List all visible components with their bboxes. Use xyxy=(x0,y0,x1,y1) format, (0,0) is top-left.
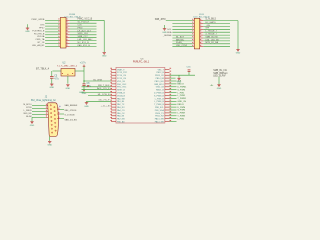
svg-text:PA13_SW: PA13_SW xyxy=(155,118,164,121)
svg-text:4.7u: 4.7u xyxy=(54,78,59,80)
svg-text:PC14_OS: PC14_OS xyxy=(117,75,127,77)
IC U3 left pin 4 xyxy=(111,77,116,79)
wire U3 left pin 7 xyxy=(82,86,112,88)
svg-text:GND: GND xyxy=(102,56,107,58)
regulator U2 pin marks xyxy=(62,72,63,75)
svg-text:D_PWM_B: D_PWM_B xyxy=(154,93,165,95)
connector J103 pin 9 (left) xyxy=(193,31,195,33)
svg-text:PMIC_VCC_B: PMIC_VCC_B xyxy=(78,18,93,20)
wire J103 right row 10 xyxy=(203,46,230,48)
IC U3 left pin 17 xyxy=(111,115,116,117)
svg-text:GND: GND xyxy=(84,106,89,108)
wire J101 pin2 to GND rail xyxy=(70,19,105,21)
wire down from U2 output xyxy=(83,71,85,81)
regulator U2 body xyxy=(61,69,75,77)
IC U3 left pin 16 xyxy=(111,112,116,114)
wire J103 left row 5 xyxy=(172,31,192,33)
svg-text:LML_C1N2: LML_C1N2 xyxy=(176,45,188,47)
connector J101 pin 8 (right) xyxy=(66,28,70,30)
connector J101 pin 10 (right) xyxy=(66,31,70,33)
wire J2 left row 4 xyxy=(32,113,46,115)
svg-text:M_BC10: M_BC10 xyxy=(23,104,32,106)
svg-text:BL_W1B: BL_W1B xyxy=(93,80,102,82)
connector J101 pin 12 (right) xyxy=(66,34,70,36)
svg-text:GND: GND xyxy=(79,92,84,94)
svg-text:VBAT_9: VBAT_9 xyxy=(117,68,125,71)
wire U3 left pin 10 xyxy=(88,95,111,97)
svg-text:PAD_BY1_B: PAD_BY1_B xyxy=(78,44,91,47)
svg-text:L_PW1_B: L_PW1_B xyxy=(155,98,165,100)
wire J2 left row 2 xyxy=(32,107,46,109)
svg-text:L_PWM: L_PWM xyxy=(177,95,185,97)
IC U3 right pin 34 xyxy=(165,109,170,111)
wire U3 right pin 22 rail xyxy=(170,74,196,76)
svg-text:CLK: CLK xyxy=(78,25,83,27)
wire label block to ground xyxy=(218,77,220,85)
svg-text:PA0_WK: PA0_WK xyxy=(117,97,126,100)
svg-text:PH1_OSC: PH1_OSC xyxy=(117,87,127,89)
svg-text:L_TB1LE_#: L_TB1LE_# xyxy=(205,31,217,33)
IC U3 left pin 15 xyxy=(111,109,116,111)
wire U3 right pin 30 xyxy=(170,97,177,99)
capacitor C5 xyxy=(50,77,54,79)
svg-text:ML_1CW_B: ML_1CW_B xyxy=(98,94,110,96)
IC U3 left pin 8 xyxy=(111,89,116,91)
IC U3 right pin 30 xyxy=(165,97,170,99)
wire J103 right row 3 xyxy=(203,25,230,27)
IC U3 right pin 31 xyxy=(165,100,170,102)
wire U3 right pin 28 xyxy=(170,92,177,94)
svg-text:WR_T_BLK: WR_T_BLK xyxy=(98,85,110,87)
svg-text:GND: GND xyxy=(47,144,52,146)
svg-text:BT1B: BT1B xyxy=(26,107,32,109)
connector J101 pin 17 (left) xyxy=(59,43,60,45)
svg-text:PB8_SCL: PB8_SCL xyxy=(155,107,165,109)
connector J101 pin 20 (right) xyxy=(66,45,70,47)
svg-text:PURLFC_-08_1: PURLFC_-08_1 xyxy=(133,62,150,64)
connector J103 pin 2 (right) xyxy=(200,20,204,22)
wire J101 right row 3 xyxy=(70,25,97,27)
wire U3 right pin 29 xyxy=(170,95,177,97)
connector J103 pin 17 (left) xyxy=(193,43,195,45)
wire U3 left pin 9 xyxy=(82,92,112,94)
svg-text:LML_LB1_W#: LML_LB1_W# xyxy=(205,39,220,41)
svg-text:GND_1B: GND_1B xyxy=(156,87,165,89)
wire U3 right pin 36 xyxy=(170,115,177,117)
svg-text:BT_1S: BT_1S xyxy=(38,42,45,44)
svg-text:T_PWM: T_PWM xyxy=(177,116,185,118)
svg-text:PA6_MI: PA6_MI xyxy=(117,115,124,118)
wire J101 left row 5 xyxy=(45,31,59,33)
svg-text:VDDA_B: VDDA_B xyxy=(117,94,126,97)
svg-text:PB9_SDA: PB9_SDA xyxy=(155,109,165,112)
ground symbol below J103 right rail xyxy=(236,49,241,54)
wire U3 right pin 37 xyxy=(170,118,177,120)
svg-text:PC13_RTC: PC13_RTC xyxy=(117,72,128,74)
svg-text:BRCWC: BRCWC xyxy=(176,39,185,41)
connector J103 pin 5 (left) xyxy=(193,25,195,27)
wire J2 left row 1 xyxy=(32,105,46,107)
wire J103 right row 2 xyxy=(203,23,230,25)
connector J101 pin 18 (right) xyxy=(66,43,70,45)
svg-text:+3.7v: +3.7v xyxy=(80,61,87,64)
wire J103 right row 4 xyxy=(203,28,230,30)
svg-text:RBD1_B: RBD1_B xyxy=(156,90,164,92)
wire J101 left row 4 xyxy=(45,28,59,30)
connector J101 pin 5 (left) xyxy=(59,25,60,27)
IC U3 left pin 10 xyxy=(111,95,116,97)
svg-text:NC_BY1_B: NC_BY1_B xyxy=(78,42,90,44)
ground symbol right of U3 xyxy=(177,78,182,83)
connector J103 pin 18 (right) xyxy=(200,43,204,45)
wire J103 left row 7 xyxy=(172,37,192,39)
wire U3 right pin 32 xyxy=(170,103,177,105)
svg-text:VB1_T: VB1_T xyxy=(158,69,165,71)
ground symbol below U2 xyxy=(66,85,71,90)
svg-text:VSSA_B: VSSA_B xyxy=(117,92,125,95)
ground symbol below J2 xyxy=(47,141,52,146)
svg-text:FLAN_: FLAN_ xyxy=(176,41,184,44)
svg-text:VDD1A: VDD1A xyxy=(37,35,45,38)
svg-text:9AB_BBNHK: 9AB_BBNHK xyxy=(65,104,78,107)
svg-text:L_PW2: L_PW2 xyxy=(177,118,185,120)
wire stub GND at J103 left xyxy=(164,25,166,28)
IC U3 left pin 9 xyxy=(111,92,116,94)
svg-text:LP_4CY_CLT: LP_4CY_CLT xyxy=(78,30,92,32)
svg-text:L_9BDN: L_9BDN xyxy=(24,110,32,112)
svg-text:PC15_OS: PC15_OS xyxy=(117,78,127,80)
IC U3 right pin 24 xyxy=(165,80,170,82)
wire +3.7V rail into U3 pin xyxy=(84,80,111,82)
svg-text:GND: GND xyxy=(217,88,222,90)
wire J103 right row 6 xyxy=(203,34,230,36)
svg-text:9AB_4CLBS: 9AB_4CLBS xyxy=(65,118,78,121)
svg-text:BU_Vrau_lightning_bc: BU_Vrau_lightning_bc xyxy=(31,99,57,102)
svg-text:9BD_M9: 9BD_M9 xyxy=(23,113,32,115)
svg-text:S_PWM_B: S_PWM_B xyxy=(154,95,164,97)
svg-text:+_1L+_B: +_1L+_B xyxy=(101,106,110,108)
wire J101 left row 8 xyxy=(45,40,59,42)
wire J101 left row 10 xyxy=(45,45,59,47)
svg-text:PA5_CK: PA5_CK xyxy=(117,112,125,115)
wire C5 to ground xyxy=(51,79,53,84)
connector J103 pin 15 (left) xyxy=(193,40,195,42)
IC U3 left pin 1 xyxy=(111,68,116,70)
svg-text:L_PW1: L_PW1 xyxy=(177,92,185,94)
wire U3 left pin 8 xyxy=(82,89,112,91)
wire J103 pin1 long xyxy=(166,20,193,22)
connector J103 pin 1 (left) xyxy=(193,20,195,22)
wire J101 left row 1 xyxy=(45,19,59,21)
wire U3 right pin 24 xyxy=(170,80,177,82)
connector J2 left pin 1 xyxy=(46,105,48,107)
IC U3 right pin 29 xyxy=(165,95,170,97)
connector J103 pin 7 (left) xyxy=(193,28,195,30)
svg-text:#dL_#TL_F: #dL_#TL_F xyxy=(98,100,110,102)
wire U3 left pin 12 xyxy=(87,100,112,102)
IC U3 right pin 35 xyxy=(165,112,170,114)
svg-text:PA7_MO: PA7_MO xyxy=(117,118,125,121)
connector J2 left pin 2 xyxy=(46,107,48,109)
wire into regulator U2 input xyxy=(53,70,62,72)
connector J101 pin 9 (left) xyxy=(59,31,60,33)
svg-text:SMB_C1Y: SMB_C1Y xyxy=(78,36,89,38)
svg-text:MTB_B1_BA: MTB_B1_BA xyxy=(205,41,218,44)
svg-text:SDA: SDA xyxy=(167,31,172,34)
wire J103 right row 8 xyxy=(203,40,230,42)
connector J2 left pin 3 xyxy=(46,111,48,113)
wire U3 right pin 35 xyxy=(170,112,177,114)
wire down from U3 pin 12 to ground xyxy=(86,101,88,102)
ground symbol below label block xyxy=(217,85,222,90)
connector J103 pin 13 (left) xyxy=(193,37,195,39)
svg-text:SMB_BRPapt: SMB_BRPapt xyxy=(213,72,228,75)
ground symbol below U3 pin 12 wire xyxy=(84,103,89,108)
wire U3 right pin 23 short xyxy=(170,77,176,79)
wire U3 right pin 27 xyxy=(170,89,177,91)
wire J101 left row 3 xyxy=(45,25,59,27)
svg-text:D_PWM1: D_PWM1 xyxy=(177,87,187,89)
wire J103 left row 6 xyxy=(172,34,192,36)
svg-text:BL_B1Y: BL_B1Y xyxy=(176,36,185,38)
IC U3 right pin 26 xyxy=(165,86,170,88)
IC U3 right pin 28 xyxy=(165,92,170,94)
svg-text:GPI: GPI xyxy=(205,28,209,30)
svg-text:GND: GND xyxy=(30,125,35,127)
wire J103 right row 5 xyxy=(203,31,230,33)
IC U3 right pin 23 xyxy=(165,77,170,79)
connector J103 pin 20 (right) xyxy=(200,46,204,48)
svg-text:PB12_B: PB12_B xyxy=(156,72,164,74)
wire J2 pin5 to ground xyxy=(31,117,33,121)
wire U3 right pin 33 xyxy=(170,106,177,108)
IC U3 right pin 22 xyxy=(165,74,170,76)
wire J101 left row 7 xyxy=(45,37,59,39)
svg-text:PA2_TX: PA2_TX xyxy=(117,103,125,106)
svg-text:BC_MATIL: BC_MATIL xyxy=(205,21,216,24)
wire J2 right row 3 xyxy=(60,118,64,120)
wire J2 right row 2 xyxy=(60,113,64,115)
wire J101 right row 7 xyxy=(70,37,97,39)
capacitor C8 xyxy=(82,84,85,86)
svg-text:S_PWM: S_PWM xyxy=(177,110,185,112)
svg-text:GND: GND xyxy=(177,81,182,83)
svg-text:4_TB1LE_#: 4_TB1LE_# xyxy=(205,34,217,36)
junction dot blue xyxy=(59,106,60,107)
svg-text:9d#L_#CL_F: 9d#L_#CL_F xyxy=(97,88,110,90)
IC U3 right pin 25 xyxy=(165,83,170,85)
connector J101 pin 11 (left) xyxy=(59,34,60,36)
wire J101 right row 10 xyxy=(70,45,97,47)
capacitor C9 marks on U3 left wire xyxy=(87,85,89,87)
svg-text:PB11_RX: PB11_RX xyxy=(155,116,164,118)
connector J103 pin 10 (right) xyxy=(200,31,204,33)
wire J101 right row 2 xyxy=(70,22,97,24)
wire J101 right row 6 xyxy=(70,34,97,36)
svg-text:LML_LB1_AN#: LML_LB1_AN# xyxy=(78,38,94,41)
svg-text:LBD_SLPW: LBD_SLPW xyxy=(213,75,226,77)
IC U3 right pin 27 xyxy=(165,89,170,91)
svg-text:PF0#: PF0# xyxy=(39,28,45,30)
svg-text:T_PWM1: T_PWM1 xyxy=(177,98,187,100)
junction xyxy=(83,80,84,81)
IC U3 left pin 12 xyxy=(111,100,116,102)
svg-text:GND: GND xyxy=(25,31,30,33)
wire U3 right pin 25 xyxy=(170,83,177,85)
svg-text:GND_CH: GND_CH xyxy=(177,101,186,103)
IC U3 left pin 14 xyxy=(111,106,116,108)
svg-text:SMB_BC1W: SMB_BC1W xyxy=(205,36,218,38)
wire J101 right row 8 xyxy=(70,40,97,42)
connector J2 D-sub body xyxy=(48,103,59,137)
wire J103 left row 9 xyxy=(172,43,192,45)
connector J2 right pin 8 xyxy=(57,118,60,120)
IC U3 left pin 5 xyxy=(111,80,116,82)
connector J101 pin 19 (left) xyxy=(59,45,60,47)
wire J2 right row 1 xyxy=(60,109,64,111)
svg-text:PH0_OSC: PH0_OSC xyxy=(117,84,127,86)
ground symbol below C5 xyxy=(50,84,55,89)
connector J103 body xyxy=(194,18,199,49)
IC U3 right pin 32 xyxy=(165,103,170,105)
wire vertical J101 pin2 net down to ground xyxy=(103,20,105,52)
power flag +3.7V xyxy=(83,65,86,67)
wire J103 right row 9 xyxy=(203,43,230,45)
connector J2 pin circles xyxy=(50,105,56,133)
svg-text:GND: GND xyxy=(66,88,71,90)
svg-text:PF0#: PF0# xyxy=(78,27,84,29)
svg-text:T_L7+-08hr_-18hr_1: T_L7+-08hr_-18hr_1 xyxy=(57,64,78,67)
wire J2 left row 5 xyxy=(32,116,46,118)
connector J101 pin 4 (right) xyxy=(66,22,70,24)
wire J103 left row 2 xyxy=(172,23,192,25)
connector J101 pin 3 (left) xyxy=(59,22,60,24)
svg-text:SL_F12CLT: SL_F12CLT xyxy=(78,22,90,24)
wire down to ground at right of U3 xyxy=(178,75,180,78)
svg-text:D_PWM: D_PWM xyxy=(177,107,185,109)
IC U3 left pin 19 xyxy=(111,121,116,123)
svg-text:S_PWM: S_PWM xyxy=(177,89,185,91)
svg-text:NRST_B: NRST_B xyxy=(117,90,126,92)
wire stub GND at J101 left xyxy=(27,24,29,28)
svg-text:PB13_CK: PB13_CK xyxy=(155,75,164,77)
connector J103 pin 19 (left) xyxy=(193,46,195,48)
svg-text:9B4_4TB1S: 9B4_4TB1S xyxy=(65,110,77,112)
connector J2 right pin 6 xyxy=(57,109,60,111)
svg-text:PA1_B4: PA1_B4 xyxy=(117,100,125,103)
ground symbol below J2 left xyxy=(30,122,35,127)
svg-text:CMD_7A: CMD_7A xyxy=(35,38,44,41)
connector J101 pin 7 (left) xyxy=(59,28,60,30)
ground symbol below J101 right rail xyxy=(102,53,107,58)
wire J2 left row 3 xyxy=(32,111,46,113)
wire J103 pin2 to GND rail xyxy=(203,20,238,22)
IC U3 left pin 18 xyxy=(111,118,116,120)
svg-text:PA3_RX: PA3_RX xyxy=(117,106,125,109)
svg-text:LML_AN_B1: LML_AN_B1 xyxy=(32,44,45,47)
IC U3 right pin 36 xyxy=(165,115,170,117)
svg-text:S_N_BIL5: S_N_BIL5 xyxy=(205,19,216,21)
svg-text:PA14_SW: PA14_SW xyxy=(155,121,164,124)
IC U3 right pin 21 xyxy=(165,71,170,73)
wire vertical J103 pin2 net down to ground xyxy=(237,21,239,49)
wire J103 right row 7 xyxy=(203,37,230,39)
svg-text:RBD1#: RBD1# xyxy=(177,104,185,106)
wire U3 right pin 34 xyxy=(170,109,177,111)
svg-text:VDD_1B: VDD_1B xyxy=(117,81,125,83)
wire C16 to rail xyxy=(188,72,190,75)
connector J103 pin 8 (right) xyxy=(200,28,204,30)
wire J101 left row 9 xyxy=(45,43,59,45)
IC U3 right pin 33 xyxy=(165,106,170,108)
wire J103 left row 3 xyxy=(172,25,192,27)
svg-text:BBD1#: BBD1# xyxy=(177,84,184,86)
svg-text:9_1CW1B: 9_1CW1B xyxy=(65,115,76,117)
wire U2 ground pin down xyxy=(67,76,69,84)
IC U3 left pin 13 xyxy=(111,103,116,105)
svg-text:PB0_AD: PB0_AD xyxy=(117,121,125,124)
svg-text:GND: GND xyxy=(162,32,167,34)
wire U3 right pin 26 xyxy=(170,86,177,88)
svg-text:GND: GND xyxy=(236,52,241,54)
svg-text:L_PWM_B: L_PWM_B xyxy=(154,101,164,103)
IC U3 body xyxy=(116,67,165,123)
connector J101 pin 2 (right) xyxy=(66,19,70,21)
IC U3 left pin 3 xyxy=(111,74,116,76)
IC U3 right pin 38 xyxy=(165,121,170,123)
connector J101 pin 15 (left) xyxy=(59,40,60,42)
wire J103 left row 8 xyxy=(172,40,192,42)
svg-text:BT_TBLK_4: BT_TBLK_4 xyxy=(36,67,50,70)
wire U3 right pin 31 xyxy=(170,100,177,102)
capacitor C16 body xyxy=(188,70,191,72)
svg-text:SWD_CLK: SWD_CLK xyxy=(78,33,89,35)
svg-text:BL4M: BL4M xyxy=(26,116,32,118)
svg-text:PA4_CS: PA4_CS xyxy=(117,109,125,112)
wire J103 left row 10 xyxy=(172,46,192,48)
connector J103 pin 11 (left) xyxy=(193,34,195,36)
connector J103 pin 3 (left) xyxy=(193,23,195,25)
ground symbol left of J103 xyxy=(162,29,167,34)
IC U3 left pin 2 xyxy=(111,71,116,73)
connector J101 body xyxy=(60,17,66,48)
IC U3 right pin 20 xyxy=(165,68,170,70)
connector J103 pin 4 (right) xyxy=(200,23,204,25)
connector J103 pin 6 (right) xyxy=(200,25,204,27)
connector J101 pin 1 (left) xyxy=(59,19,60,21)
wire J101 left row 2 xyxy=(45,22,59,24)
wire J101 right row 4 xyxy=(70,28,97,30)
IC U3 left pin 6 xyxy=(111,83,116,85)
IC U3 right pin 37 xyxy=(165,118,170,120)
wire U3 right pin 38 xyxy=(170,121,177,123)
svg-text:PB15_MO: PB15_MO xyxy=(155,81,165,83)
svg-text:_GN: _GN xyxy=(204,25,210,27)
svg-text:_SENSE: _SENSE xyxy=(162,35,172,37)
svg-text:GND: GND xyxy=(50,87,55,89)
svg-text:PB14_MI: PB14_MI xyxy=(156,78,165,80)
svg-text:PMIC_GPKB: PMIC_GPKB xyxy=(32,19,45,21)
wire J103 left row 4 xyxy=(172,28,192,30)
connector J101 pin 6 (right) xyxy=(66,25,70,27)
wire C8 to ground xyxy=(83,86,85,90)
svg-text:PB10_TX: PB10_TX xyxy=(155,113,164,115)
IC U3 left pin 7 xyxy=(111,86,116,88)
connector J101 pin 13 (left) xyxy=(59,37,60,39)
wire J2 shell to ground xyxy=(49,137,51,141)
wire down to capacitor C5 xyxy=(51,71,53,76)
wire up to +3.7V flag xyxy=(83,66,85,71)
